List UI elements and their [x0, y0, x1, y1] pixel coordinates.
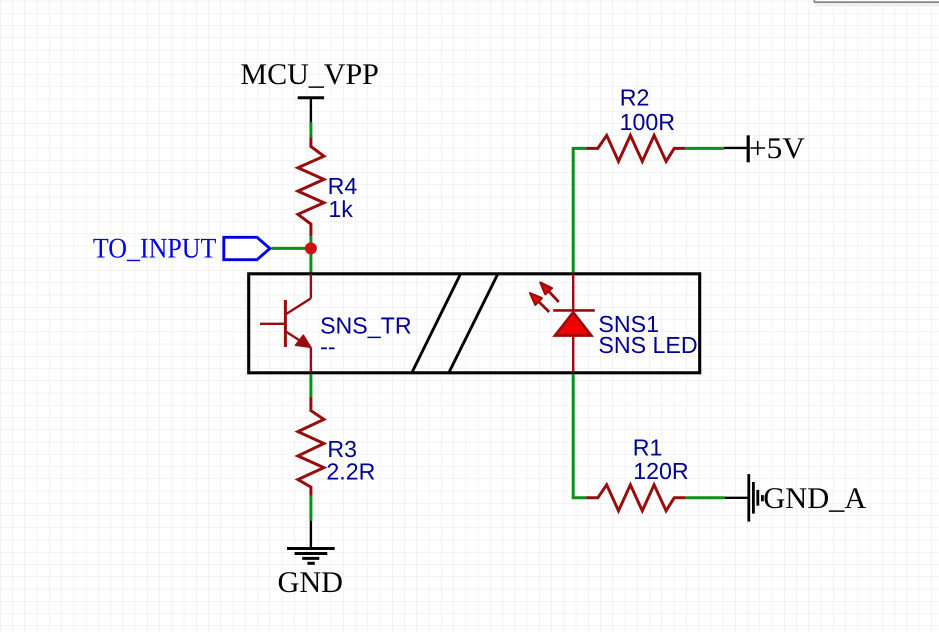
- resistor R3: [298, 397, 375, 495]
- wire R2 to +5V: [685, 147, 724, 150]
- wire MCU_VPP to R4: [309, 122, 312, 137]
- wire R3 to GND: [309, 496, 312, 522]
- LED SNS1: [530, 274, 698, 372]
- svg-text:SNS LED: SNS LED: [598, 332, 697, 358]
- svg-text:R4: R4: [328, 173, 358, 199]
- resistor R4: [298, 138, 357, 237]
- wire box top to R2 (left vertical + horizontal): [573, 148, 587, 272]
- opto-isolator body: [249, 274, 700, 373]
- svg-text:120R: 120R: [633, 458, 688, 484]
- svg-text:GND_A: GND_A: [763, 482, 866, 515]
- wire port to junction: [272, 247, 311, 250]
- wire R1 to GND_A: [685, 496, 725, 499]
- svg-text:100R: 100R: [620, 109, 675, 135]
- window corner artifact top right: [814, 0, 939, 7]
- ground GND: [278, 521, 344, 599]
- wire R4 to junction: [309, 236, 312, 248]
- wire box bottom to R3: [309, 374, 312, 398]
- power ground GND_A: [725, 474, 867, 521]
- port TO_INPUT: [93, 234, 270, 265]
- svg-text:R2: R2: [620, 84, 650, 110]
- svg-text:TO_INPUT: TO_INPUT: [93, 234, 217, 265]
- svg-text:MCU_VPP: MCU_VPP: [240, 58, 379, 91]
- wire junction to opto box: [309, 248, 312, 272]
- svg-text:2.2R: 2.2R: [326, 458, 375, 484]
- svg-text:GND: GND: [278, 566, 344, 599]
- wire box bottom to R1 (right vertical + horizontal): [573, 374, 587, 498]
- resistor R1: [587, 434, 689, 510]
- power symbol +5V: [724, 132, 805, 165]
- resistor R2: [587, 84, 685, 161]
- transistor SNS_TR: [260, 274, 412, 372]
- svg-text:+5V: +5V: [749, 132, 805, 165]
- power symbol MCU_VPP: [240, 58, 379, 122]
- svg-text:1k: 1k: [328, 196, 353, 222]
- junction dot: [305, 242, 317, 254]
- svg-text:R1: R1: [633, 434, 663, 460]
- svg-text:--: --: [320, 334, 335, 360]
